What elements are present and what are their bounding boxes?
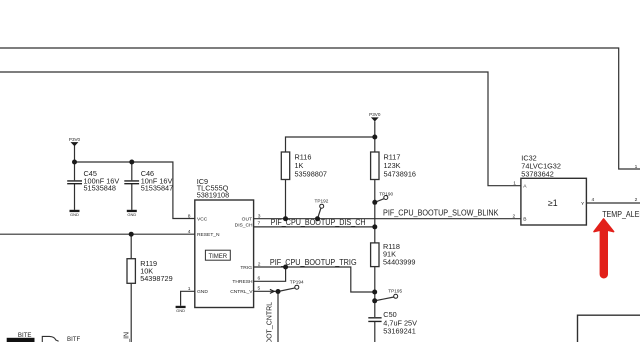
- svg-text:4: 4: [592, 197, 595, 203]
- ground symbol under C46: [127, 210, 137, 217]
- wire PIF_CPU_BOOTUP_SLOW_BLINK main horizontal: [254, 218, 521, 220]
- svg-text:53598807: 53598807: [295, 169, 327, 178]
- CNTRL_V input arrow mark: [270, 289, 274, 293]
- svg-text:GND: GND: [197, 289, 208, 295]
- svg-text:1: 1: [188, 286, 191, 292]
- TP195 circle: [394, 294, 398, 298]
- svg-text:7: 7: [258, 220, 261, 226]
- gate shape partial: [42, 336, 58, 342]
- wire TP192 diagonal: [318, 208, 321, 219]
- ground symbol under C45: [70, 210, 80, 217]
- svg-text:TP195: TP195: [388, 288, 402, 293]
- IC32 labels: [521, 153, 561, 178]
- svg-text:6: 6: [258, 276, 261, 282]
- power symbol P3V0 left: [69, 137, 81, 146]
- capacitor C50 labels: [383, 310, 417, 335]
- IC9 labels: [197, 177, 229, 200]
- junction C50 top at TP195: [372, 298, 377, 303]
- svg-text:PIF_CPU_BOOTUP_DIS_CH: PIF_CPU_BOOTUP_DIS_CH: [271, 218, 366, 227]
- svg-text:53783642: 53783642: [521, 170, 553, 179]
- resistor R118 labels: [383, 242, 415, 267]
- wire PIF_CPU_BOOTUP_DIS_CH: [254, 226, 375, 228]
- wire R117 to R118 vertical chain: [374, 137, 376, 317]
- svg-text:P3V0: P3V0: [69, 137, 81, 142]
- svg-text:GND: GND: [70, 212, 79, 217]
- svg-text:2: 2: [513, 214, 516, 220]
- capacitor C46 plates: [124, 181, 139, 184]
- junction P3V0 rail at C46: [129, 160, 134, 165]
- junction P3V0 rail at C45: [72, 160, 77, 165]
- wire TP195 diagonal: [375, 297, 394, 301]
- wire RESET_N from left edge to IC9 pin 4: [0, 233, 195, 235]
- test point labels: [290, 191, 403, 293]
- red annotation arrow: [594, 219, 614, 278]
- wire CNTRL_V pin 5 vertical BOOT_CNTRL: [254, 291, 278, 342]
- junction TRIG route at R118 line: [372, 290, 377, 295]
- svg-text:54738916: 54738916: [384, 169, 416, 178]
- resistor R118: [371, 243, 379, 267]
- wire IC32 output Y to right edge: [586, 202, 640, 204]
- test point circles: [295, 196, 398, 299]
- svg-text:54403999: 54403999: [383, 258, 415, 267]
- svg-text:53169241: 53169241: [383, 326, 415, 335]
- TP190 circle: [384, 196, 388, 200]
- svg-text:8: 8: [188, 213, 191, 219]
- svg-text:_IN: _IN: [124, 332, 131, 342]
- capacitor C46 labels: [141, 169, 173, 193]
- wire P3V0 rail to R116 R117 tops: [286, 121, 375, 152]
- svg-text:PIF_CPU_BOOTUP_TRIG: PIF_CPU_BOOTUP_TRIG: [270, 258, 357, 267]
- svg-text:TRIG: TRIG: [240, 265, 252, 271]
- svg-text:≥1: ≥1: [548, 198, 558, 208]
- junction P3V0 at R117 top: [372, 135, 377, 140]
- IC9 TIMER inner box: [205, 250, 230, 260]
- wire THRESH link to TRIG: [254, 267, 286, 281]
- svg-text:BITE: BITE: [18, 332, 32, 339]
- svg-text:BOOT_CNTRL: BOOT_CNTRL: [267, 302, 274, 342]
- svg-text:53819108: 53819108: [197, 191, 229, 200]
- svg-text:1: 1: [635, 164, 638, 170]
- svg-text:GND: GND: [176, 308, 185, 313]
- wire net1 top horizontal to right edge: [0, 48, 640, 169]
- resistor R117 labels: [384, 152, 416, 178]
- resistor R119: [127, 259, 135, 284]
- junction CNTRL_V at BOOT_CNTRL: [276, 289, 281, 294]
- svg-text:B: B: [523, 217, 526, 223]
- svg-text:DIS_CH: DIS_CH: [235, 222, 253, 228]
- wire R116 bottom lead: [285, 180, 287, 219]
- capacitor C45 plates: [67, 181, 82, 184]
- power symbol P3V0 right: [369, 112, 381, 121]
- wire net2 second horizontal into IC32 pin A: [0, 72, 521, 186]
- TP194 circle: [295, 285, 299, 289]
- wire P3V0 rail to C45 C46 and IC9 VCC pin 8: [75, 146, 195, 219]
- svg-text:1: 1: [513, 181, 516, 187]
- svg-text:TP190: TP190: [379, 191, 393, 196]
- wire IC9 GND pin 1: [181, 291, 195, 306]
- wire TP194 diagonal: [278, 288, 295, 292]
- resistor R116 labels: [295, 152, 327, 178]
- svg-text:VCC: VCC: [197, 216, 208, 222]
- BITE black block: [7, 338, 35, 342]
- svg-text:51535848: 51535848: [84, 184, 116, 193]
- IC9 box: [195, 200, 254, 308]
- capacitor C45 labels: [84, 169, 120, 193]
- junction SLOW_BLINK at TP192: [315, 216, 320, 221]
- svg-text:TP192: TP192: [315, 199, 329, 204]
- svg-text:54398729: 54398729: [140, 274, 172, 283]
- wire C45 leads: [74, 162, 76, 210]
- resistor R116: [281, 152, 289, 180]
- resistor R119 labels: [140, 259, 172, 283]
- svg-text:2: 2: [635, 197, 638, 203]
- svg-text:51535847: 51535847: [141, 184, 173, 193]
- bottom right partial box: [578, 315, 640, 342]
- svg-text:PIF_CPU_BOOTUP_SLOW_BLINK: PIF_CPU_BOOTUP_SLOW_BLINK: [383, 208, 499, 217]
- svg-text:GND: GND: [127, 212, 136, 217]
- capacitor C50 plates: [368, 318, 381, 322]
- wire below C50: [374, 322, 376, 342]
- junction RESET_N at R119: [129, 232, 134, 237]
- ground symbol IC9 pin1: [176, 306, 186, 313]
- IC32 box: [521, 178, 587, 225]
- svg-text:OUT: OUT: [242, 217, 252, 223]
- wire R119 vertical: [130, 234, 132, 342]
- junction DIS_CH at R118 line: [372, 224, 377, 229]
- wire TP190 diagonal: [375, 199, 384, 203]
- svg-text:TP194: TP194: [290, 280, 304, 285]
- wire PIF_CPU_BOOTUP_TRIG route: [254, 267, 375, 292]
- svg-text:P3V0: P3V0: [369, 112, 381, 117]
- resistor R117: [371, 152, 379, 180]
- svg-text:BITF: BITF: [67, 336, 80, 342]
- junction TRIG at THRESH link: [283, 265, 288, 270]
- junction SLOW_BLINK at R116: [283, 216, 288, 221]
- svg-text:TIMER: TIMER: [208, 254, 227, 260]
- svg-text:TEMP_ALER: TEMP_ALER: [602, 209, 640, 219]
- svg-text:4: 4: [188, 229, 191, 235]
- svg-text:CNTRL_V: CNTRL_V: [230, 289, 253, 295]
- svg-text:RESET_N: RESET_N: [197, 232, 220, 238]
- svg-text:2: 2: [258, 262, 261, 268]
- svg-text:THRESH: THRESH: [232, 279, 253, 285]
- wire C46 leads: [131, 162, 133, 210]
- svg-text:5: 5: [258, 286, 261, 292]
- junction R117 bottom at TP190: [372, 200, 377, 205]
- TP192 circle: [320, 204, 324, 208]
- svg-text:3: 3: [258, 214, 261, 220]
